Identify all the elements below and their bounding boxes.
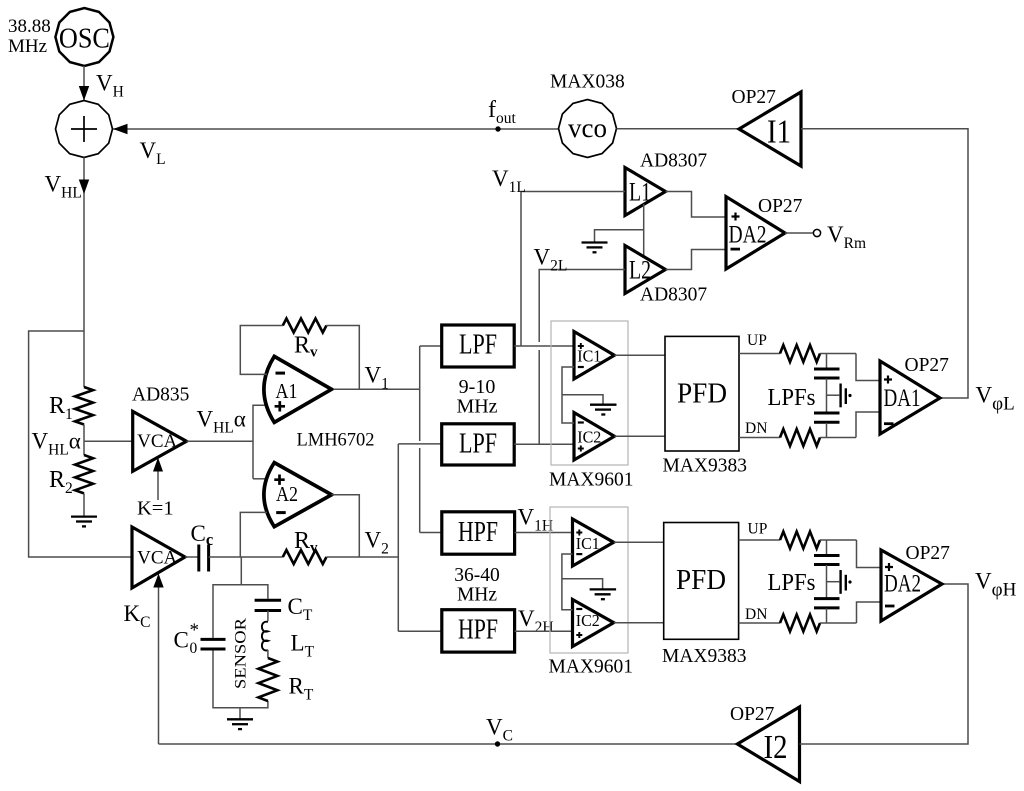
svg-text:DN: DN <box>745 420 767 437</box>
coupling capacitor C_c <box>185 556 199 558</box>
resistor DN lower <box>780 615 820 632</box>
svg-text:AD835: AD835 <box>132 385 189 406</box>
multiplier VCA2 <box>132 527 185 588</box>
inductor L_T <box>262 622 268 651</box>
svg-text:DA1: DA1 <box>884 385 921 412</box>
svg-text:L1: L1 <box>629 178 651 207</box>
ground <box>582 243 608 253</box>
mid cap tap lower <box>827 581 840 583</box>
wire V_2 <box>326 556 398 558</box>
svg-text:HPF: HPF <box>458 516 498 548</box>
K_C arrow <box>158 586 160 744</box>
svg-text:LPFs: LPFs <box>768 385 816 411</box>
svg-text:MAX9601: MAX9601 <box>549 470 634 491</box>
output wire V_Rm <box>785 232 813 234</box>
op-amp I1 OP27 <box>732 87 802 166</box>
svg-text:K=1: K=1 <box>137 498 174 520</box>
svg-text:DA2: DA2 <box>884 571 921 598</box>
log amp L2 AD8307 <box>625 246 707 306</box>
LPF box 2 <box>442 424 515 465</box>
svg-text:IC2: IC2 <box>577 427 601 446</box>
multiplier VCA1 AD835 <box>132 385 189 472</box>
svg-text:MAX038: MAX038 <box>550 72 625 93</box>
wires comparators to PFD upper <box>614 354 665 356</box>
V2 branch vertical <box>397 444 399 631</box>
wire V_1L to L1 input <box>521 192 625 347</box>
wires comparators to PFD lower <box>614 541 664 543</box>
MAX9601 box upper <box>551 321 628 465</box>
svg-text:36-40: 36-40 <box>454 565 500 586</box>
A1 feedback wire <box>240 326 282 375</box>
A2 feedback wire <box>240 512 267 557</box>
svg-text:L2: L2 <box>629 256 651 285</box>
svg-text:LMH6702: LMH6702 <box>297 430 375 451</box>
wire C_c to Rv2 <box>209 556 283 558</box>
svg-text:VCA: VCA <box>137 548 177 569</box>
svg-text:vco: vco <box>568 113 607 143</box>
wire I1 to right vertical and down to DA1 output <box>801 129 968 398</box>
PFD box upper MAX9383 <box>663 336 748 476</box>
LPF box 1 <box>442 325 515 367</box>
V1 branch vertical <box>419 346 421 441</box>
wire L1 output to DA2 + <box>666 192 727 218</box>
resistor DN upper <box>780 429 820 446</box>
svg-text:OP27: OP27 <box>905 355 950 376</box>
A2 output <box>332 495 360 557</box>
ground below R2 <box>83 494 85 516</box>
node V_HLa <box>83 425 85 456</box>
wire V_1 <box>334 388 420 390</box>
capacitor C_0* <box>201 639 226 649</box>
svg-text:MAX9383: MAX9383 <box>662 646 747 667</box>
svg-text:A1: A1 <box>276 379 298 403</box>
op-amp A1 <box>264 356 332 422</box>
svg-text:MHz: MHz <box>457 585 497 606</box>
bottom rail V_C <box>159 743 738 745</box>
svg-text:LPF: LPF <box>459 329 497 361</box>
sensor tank branch <box>240 557 242 585</box>
svg-text:OP27: OP27 <box>730 704 775 725</box>
PFD box lower MAX9383 <box>662 523 747 668</box>
svg-text:DA2: DA2 <box>729 222 767 249</box>
svg-text:OP27: OP27 <box>758 196 803 217</box>
capacitor C_T <box>255 600 282 610</box>
reference bracket and ground upper <box>562 367 574 423</box>
comparator IC1 lower <box>573 519 614 566</box>
svg-text:OSC: OSC <box>59 24 110 55</box>
wire <box>267 650 269 658</box>
comparator IC1 upper <box>574 332 614 380</box>
svg-text:LPF: LPF <box>459 427 497 459</box>
svg-text:*: * <box>190 620 200 641</box>
svg-text:IC1: IC1 <box>577 346 601 365</box>
mid cap tap upper <box>827 394 840 396</box>
op-amp DA1 OP27 <box>880 355 949 434</box>
comparator IC2 lower <box>573 600 614 647</box>
wire node to VCA1 <box>84 440 133 442</box>
svg-text:A2: A2 <box>276 482 298 506</box>
ground below sensor <box>239 708 241 719</box>
wire <box>267 611 269 622</box>
svg-text:IC2: IC2 <box>576 611 600 630</box>
wire VCA1 out, split to A1/A2 <box>187 440 254 442</box>
resistor Rv (A1) <box>283 319 327 333</box>
resistor R1 <box>75 387 93 424</box>
svg-text:I2: I2 <box>764 729 788 766</box>
HPF box 2 <box>442 610 515 652</box>
node f_out <box>495 126 500 131</box>
svg-text:MAX9601: MAX9601 <box>549 657 634 678</box>
wires to DA1 inputs <box>856 354 880 381</box>
wire L2 output to DA2 - <box>666 250 727 270</box>
oscillator OSC 38.88 MHz <box>8 8 113 66</box>
svg-text:C: C <box>174 628 189 653</box>
resistor R_T <box>258 658 277 701</box>
reference input rail L1-L2 <box>643 204 645 257</box>
op-amp I2 OP27 <box>730 704 800 782</box>
wires LPF outputs to comparators <box>514 345 574 347</box>
svg-text:OP27: OP27 <box>906 543 951 564</box>
svg-text:MAX9383: MAX9383 <box>663 456 748 477</box>
svg-text:AD8307: AD8307 <box>640 151 707 172</box>
arrowhead V_H <box>79 86 89 101</box>
log amp L1 AD8307 <box>625 151 707 216</box>
op-amp DA2 OP27 lower <box>881 543 950 621</box>
wire V_L into summer from right <box>113 128 559 130</box>
svg-text:PFD: PFD <box>677 378 727 410</box>
MAX9601 box lower <box>550 507 628 653</box>
K=1 arrow <box>157 470 159 500</box>
svg-text:DN: DN <box>745 606 767 623</box>
resistor UP lower <box>780 532 820 549</box>
svg-text:0: 0 <box>190 640 198 657</box>
resistor UP upper <box>780 345 820 362</box>
svg-text:UP: UP <box>748 521 768 538</box>
wire I2 to DA2 output <box>800 584 969 744</box>
svg-text:MHz: MHz <box>8 36 47 57</box>
resistor Rv (A2) <box>283 550 327 564</box>
svg-text:PFD: PFD <box>676 564 726 596</box>
svg-text:UP: UP <box>747 332 767 349</box>
wire to ground <box>595 230 644 242</box>
arrowhead V_L <box>113 124 128 134</box>
svg-text:38.88: 38.88 <box>8 16 51 37</box>
op-amp DA2 OP27 (V_Rm) <box>726 196 803 269</box>
wire V_2L to L2 input <box>539 270 625 343</box>
wire OSC to summer <box>83 66 85 100</box>
wires to DA2 inputs <box>857 540 882 568</box>
svg-text:SENSOR: SENSOR <box>233 617 250 689</box>
svg-text:MHz: MHz <box>456 396 497 418</box>
comparator IC2 upper <box>574 413 614 461</box>
svg-text:AD8307: AD8307 <box>640 285 707 306</box>
sensor loop <box>213 585 268 638</box>
op-amp A2 <box>264 463 332 527</box>
wire vco to I1 <box>617 128 740 130</box>
svg-text:I1: I1 <box>767 114 791 151</box>
HPF box 1 <box>442 512 515 554</box>
wire summer down V_HL <box>83 158 85 332</box>
left branch wires <box>29 331 132 557</box>
resistor R2 <box>75 455 93 493</box>
summing node <box>56 101 113 158</box>
vco MAX038 <box>559 100 617 158</box>
svg-text:HPF: HPF <box>458 614 498 646</box>
svg-text:VCA: VCA <box>137 431 177 452</box>
reference bracket and ground lower <box>562 554 573 610</box>
svg-text:IC1: IC1 <box>576 534 600 553</box>
arrowhead V_HL <box>79 180 89 195</box>
svg-text:OP27: OP27 <box>732 87 777 108</box>
svg-text:LPFs: LPFs <box>768 570 816 596</box>
